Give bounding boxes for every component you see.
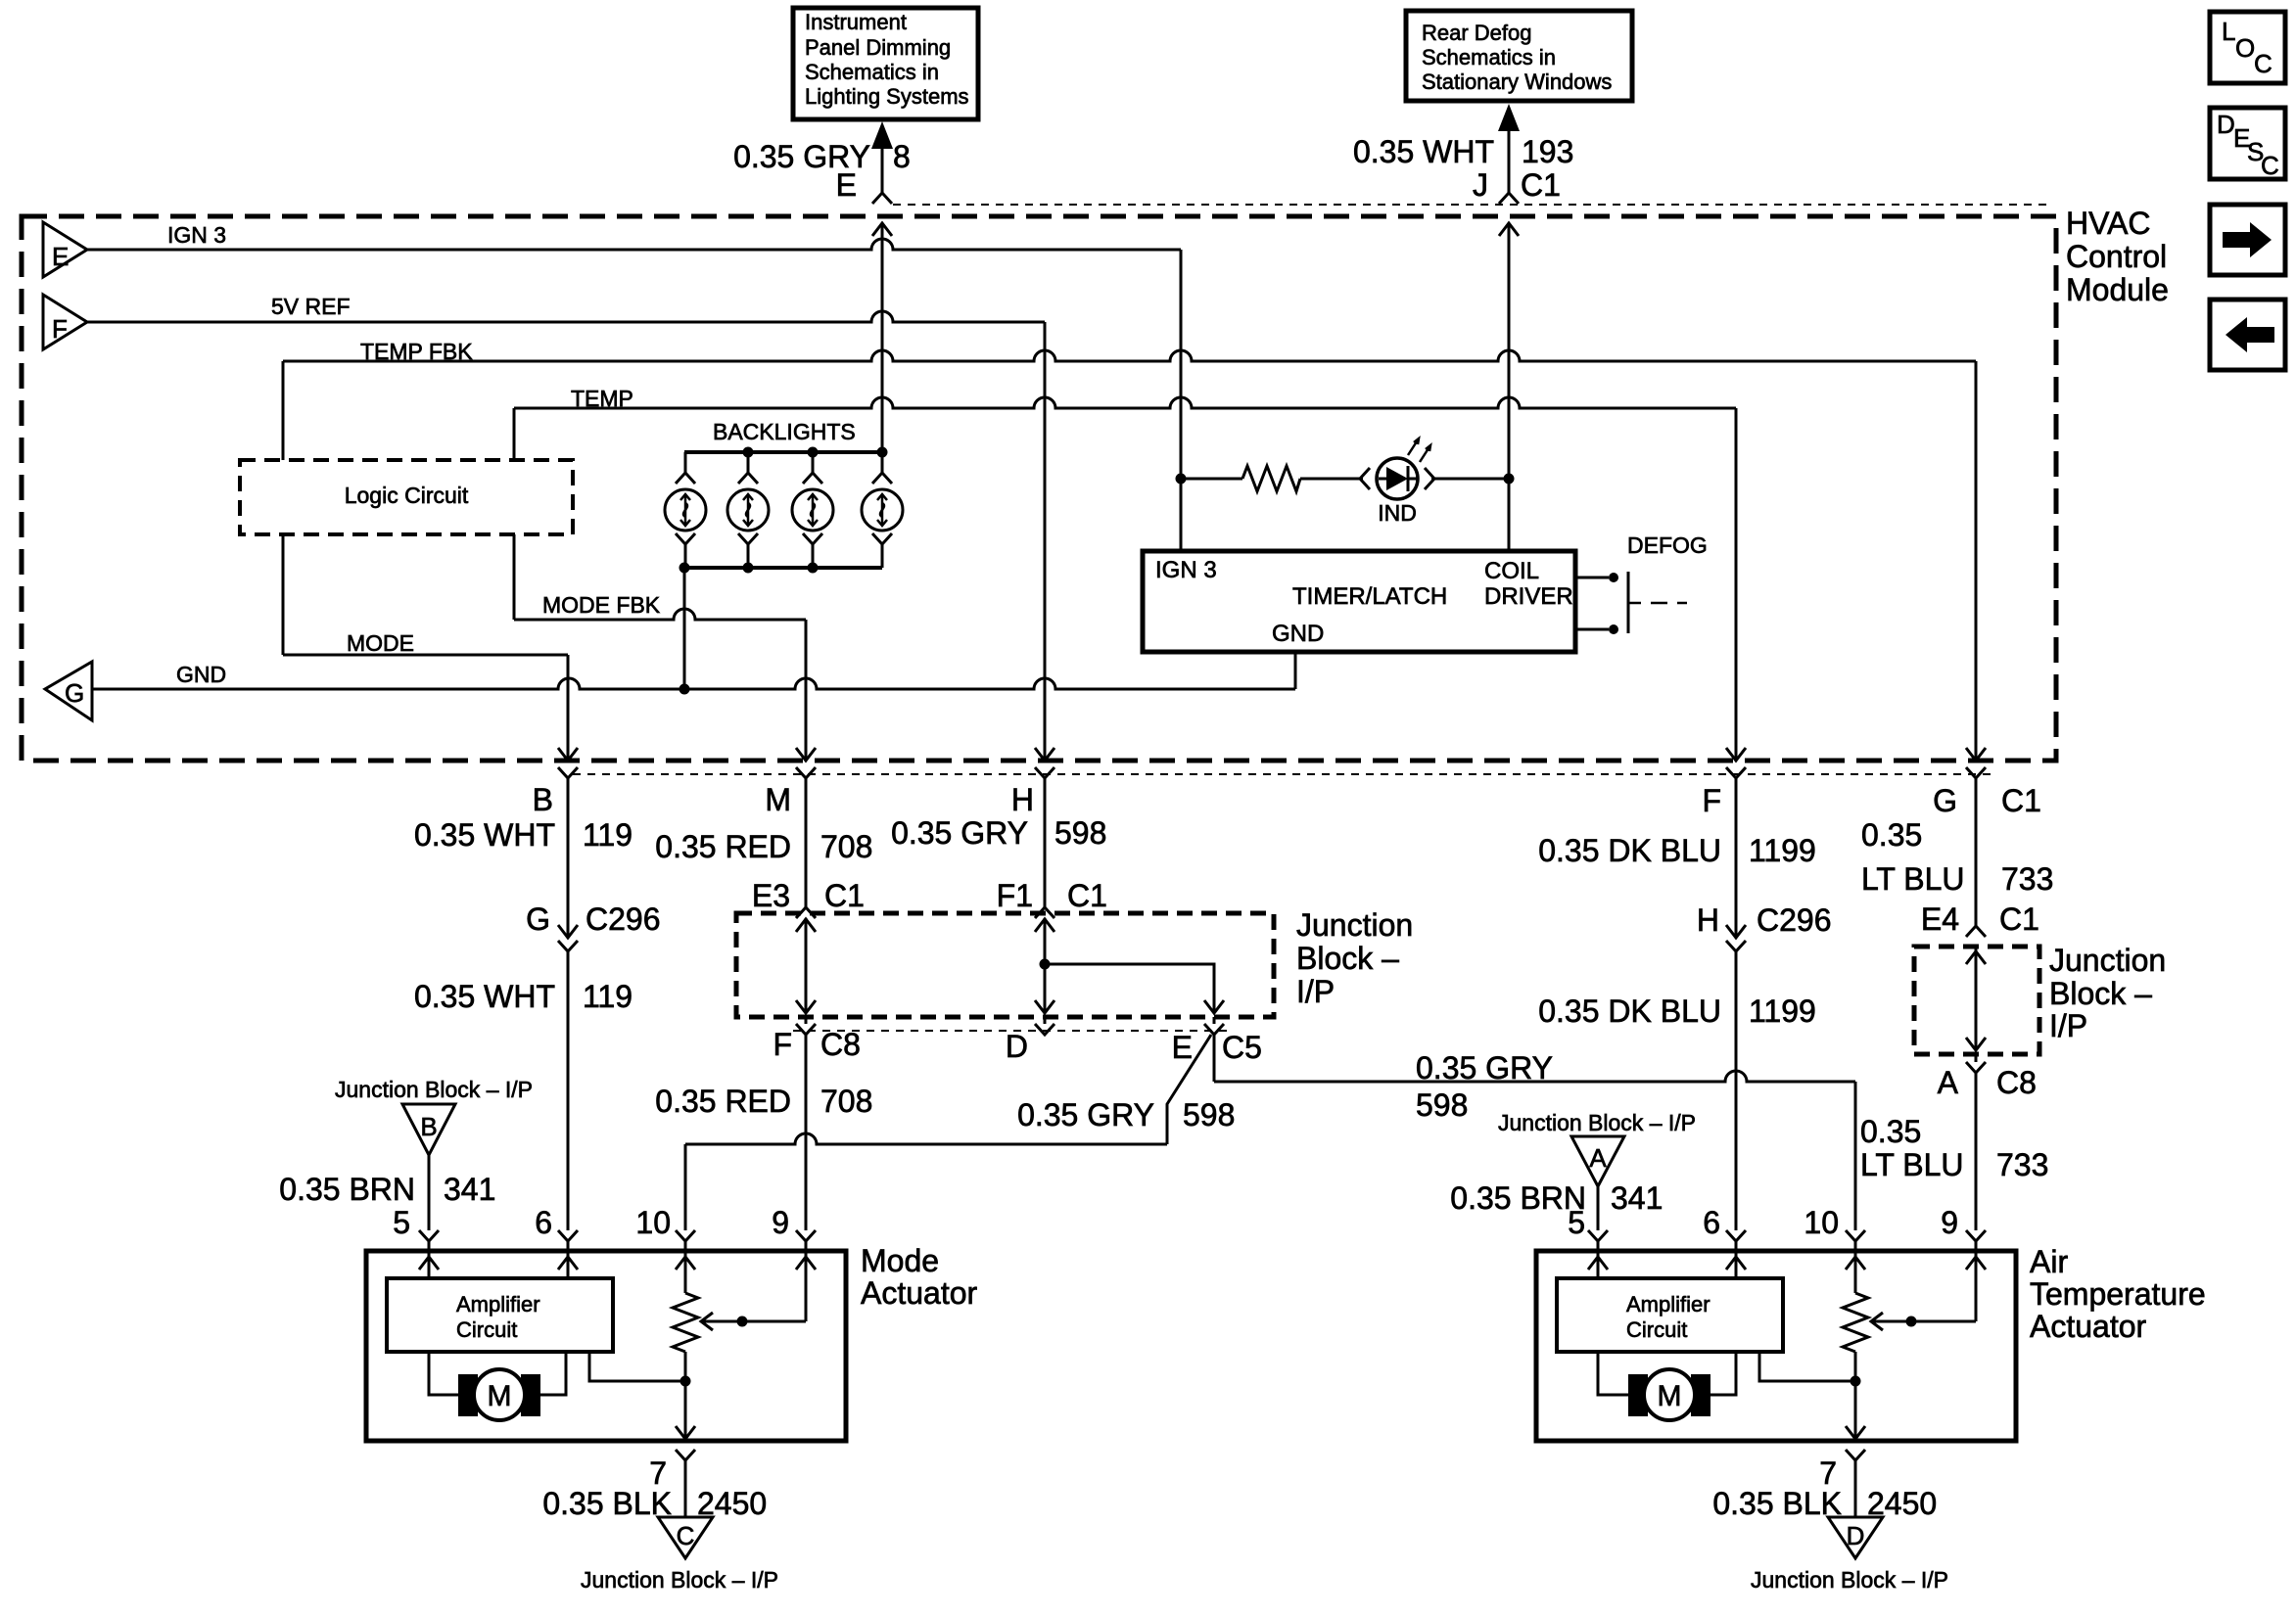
lamp backlight 2 (727, 452, 769, 568)
svg-text:C: C (677, 1521, 695, 1550)
svg-text:5V REF: 5V REF (271, 294, 351, 319)
wire triangle A to pin 5 (1588, 1186, 1608, 1251)
wiper arrow (mode) (701, 1313, 806, 1330)
label A C8 (1938, 1065, 2037, 1100)
wire IGN 3 (87, 239, 1181, 551)
label F1 C1 (997, 878, 1107, 913)
connector triangle C (junction block) (658, 1517, 713, 1558)
wire TEMP FBK (283, 350, 1976, 761)
svg-text:Schematics in: Schematics in (805, 60, 939, 84)
svg-text:D: D (1847, 1521, 1865, 1550)
box: Instrument Panel Dimming reference (793, 8, 978, 119)
svg-text:G: G (1933, 783, 1957, 818)
junction pot/amp (mode) (680, 1376, 691, 1387)
svg-text:0.35 BRN: 0.35 BRN (1450, 1180, 1586, 1216)
label 0.35 WHT 119 (upper) (414, 817, 633, 853)
connector C5 pin D below junction block (1035, 1017, 1054, 1035)
svg-text:598: 598 (1416, 1087, 1468, 1123)
label H (1011, 782, 1034, 817)
svg-text:A: A (1938, 1065, 1959, 1100)
svg-text:Actuator: Actuator (861, 1275, 978, 1311)
svg-text:F1: F1 (997, 878, 1033, 913)
wire amplifier to motor right (mode) (540, 1352, 566, 1395)
svg-text:Logic Circuit: Logic Circuit (345, 483, 469, 508)
label 0.35 BLK 2450 (left) (542, 1486, 767, 1521)
label pin 9 (air temp) (1941, 1205, 1958, 1240)
label 0.35 BLK 2450 (right) (1712, 1486, 1937, 1521)
wire resistor to IND (1300, 478, 1363, 481)
wire J exit to Rear Defog box with arrow (1498, 104, 1520, 204)
label G C1 (1933, 783, 2041, 818)
thin dashed connector line C1 top (893, 204, 2046, 206)
wire M exit arrow at module border (796, 748, 816, 778)
wire GRY 598 to air temp actuator (1214, 1035, 1865, 1251)
label F C8 (773, 1027, 860, 1062)
svg-text:Mode: Mode (861, 1243, 939, 1278)
wiper arrow (air temp) (1871, 1313, 1976, 1330)
svg-text:6: 6 (1703, 1205, 1720, 1240)
icon DESC box (2210, 108, 2285, 180)
junction inside junction block (1040, 959, 1051, 970)
svg-text:0.35 RED: 0.35 RED (655, 1084, 791, 1119)
svg-text:C296: C296 (1757, 902, 1832, 938)
svg-text:LT BLU: LT BLU (1861, 861, 1965, 897)
wire E exit to Instrument Panel box with arrow (871, 121, 893, 204)
motor M (air temp) (1628, 1369, 1710, 1420)
thin dashed connector line bottom (573, 773, 1997, 775)
label E4 C1 (1921, 901, 2039, 937)
svg-text:Panel Dimming: Panel Dimming (805, 35, 951, 60)
svg-text:0.35 GRY: 0.35 GRY (1416, 1050, 1553, 1086)
label IND (1378, 500, 1417, 526)
svg-text:DEFOG: DEFOG (1627, 532, 1708, 558)
resistor R (IND series) (1242, 466, 1300, 491)
box: Rear Defog reference (1406, 11, 1632, 101)
connector pin 7 below air temp actuator (1846, 1450, 1865, 1517)
connector arrow F (5V REF input) (43, 295, 87, 349)
wire IND to coil driver (1431, 478, 1509, 481)
LED IND indicator (1360, 439, 1434, 499)
svg-text:J: J (1473, 167, 1488, 203)
icon LOC box (2210, 12, 2285, 83)
label pin 6 (mode) (535, 1205, 552, 1240)
junction IND / J wire (1504, 474, 1515, 485)
svg-text:0.35 GRY: 0.35 GRY (891, 815, 1028, 851)
svg-text:Circuit: Circuit (1626, 1317, 1687, 1342)
label 0.35 GRY 598 (891, 815, 1106, 851)
label HVAC Control Module (2066, 206, 2169, 307)
label Junction Block - I/P (above triangle A) (1498, 1110, 1696, 1135)
junction return bus dots (679, 563, 819, 574)
label 0.35 WHT 119 (lower) (414, 979, 633, 1014)
svg-text:0.35 WHT: 0.35 WHT (414, 817, 555, 853)
wire pin6 to amplifier (air) (1735, 1251, 1738, 1278)
svg-text:0.35 GRY: 0.35 GRY (1017, 1097, 1154, 1132)
wire backlight return bus (684, 566, 882, 570)
svg-text:IND: IND (1378, 500, 1417, 526)
label Junction Block - I/P (bottom right) (1751, 1567, 1948, 1593)
lamp backlight 3 (792, 452, 833, 568)
svg-text:9: 9 (772, 1205, 789, 1240)
label Junction Block - I/P (center) (1296, 907, 1413, 1009)
svg-text:193: 193 (1522, 134, 1573, 169)
svg-text:708: 708 (820, 1084, 872, 1119)
connector C1 pin E3 (junction block top) (796, 907, 816, 918)
wire M through junction block (796, 918, 816, 1013)
label BACKLIGHTS (713, 419, 856, 444)
potentiometer (mode) (673, 1293, 698, 1352)
svg-text:0.35 DK BLU: 0.35 DK BLU (1538, 993, 1721, 1029)
svg-text:C8: C8 (1996, 1065, 2037, 1100)
junction backlight bus dots (743, 447, 888, 458)
label TIMER/LATCH (1292, 583, 1447, 610)
svg-text:C296: C296 (586, 901, 661, 937)
svg-text:D: D (2217, 110, 2235, 139)
wire pin10 to potentiometer (air) (1854, 1251, 1857, 1293)
svg-text:Control: Control (2066, 239, 2167, 274)
svg-text:COIL: COIL (1484, 558, 1539, 584)
svg-text:Amplifier: Amplifier (456, 1292, 540, 1317)
connector pin 7 below mode actuator (676, 1450, 695, 1517)
svg-text:9: 9 (1941, 1205, 1958, 1240)
svg-text:H: H (1011, 782, 1034, 817)
pin arrows mode actuator (419, 1257, 816, 1270)
connector C296 pin G inline (558, 925, 578, 951)
wire triangle B to pin 5 (419, 1155, 439, 1251)
connector arrow E (IGN 3 input) (43, 222, 87, 277)
svg-text:E: E (1172, 1030, 1193, 1065)
wire G upper segment (1975, 778, 1978, 926)
svg-text:E4: E4 (1921, 901, 1959, 937)
box: Junction Block - I/P (center, dashed) (736, 913, 1274, 1017)
svg-text:5: 5 (393, 1205, 410, 1240)
box: Air Temperature Actuator (1536, 1251, 2016, 1441)
svg-text:HVAC: HVAC (2066, 206, 2151, 241)
label Junction Block - I/P (above triangle B) (335, 1077, 533, 1102)
svg-text:Air: Air (2030, 1244, 2068, 1279)
wire TEMP (514, 397, 1736, 761)
label 0.35 BRN 341 (left) (279, 1172, 495, 1207)
wire F upper segment (1735, 778, 1738, 938)
label 0.35 WHT 193 / J C1 (1353, 134, 1573, 203)
wire amplifier to motor left (air temp) (1598, 1352, 1628, 1395)
label G C296 (526, 901, 660, 937)
label 0.35 GRY 8 / E (733, 139, 911, 203)
wire MODE (283, 534, 568, 761)
svg-text:F: F (773, 1027, 792, 1062)
label MODE FBK (542, 592, 661, 618)
svg-text:Schematics in: Schematics in (1422, 45, 1556, 69)
label 0.35 DK BLU 1199 (lower) (1538, 993, 1816, 1029)
label 0.35 LT BLU 733 (lower) (1860, 1114, 2048, 1182)
svg-text:Block –: Block – (2049, 976, 2152, 1011)
svg-text:5: 5 (1568, 1205, 1585, 1240)
wire G lower segment (1966, 1073, 1986, 1251)
svg-text:0.35 WHT: 0.35 WHT (414, 979, 555, 1014)
svg-text:E: E (836, 167, 857, 203)
label pin 6 (air temp) (1703, 1205, 1720, 1240)
junction GND / backlight return (679, 684, 690, 695)
svg-text:B: B (420, 1112, 437, 1141)
junction pot/amp (air temp) (1851, 1376, 1861, 1387)
svg-text:MODE: MODE (347, 630, 414, 656)
svg-text:341: 341 (1611, 1180, 1663, 1216)
wire H through junction block (1035, 918, 1054, 1013)
label pin 5 (air temp) (1568, 1205, 1585, 1240)
svg-text:C1: C1 (1521, 167, 1561, 203)
svg-text:0.35 BLK: 0.35 BLK (542, 1486, 672, 1521)
lamp backlight 1 (665, 452, 706, 568)
svg-text:Junction: Junction (1296, 907, 1413, 943)
svg-text:M: M (765, 782, 791, 817)
label 0.35 GRY 598 (left) (1017, 1097, 1235, 1132)
svg-text:MODE FBK: MODE FBK (542, 592, 661, 618)
svg-text:708: 708 (820, 829, 872, 864)
svg-text:Circuit: Circuit (456, 1317, 517, 1342)
svg-text:BACKLIGHTS: BACKLIGHTS (713, 419, 856, 444)
svg-text:Module: Module (2066, 272, 2169, 307)
label D (1006, 1029, 1028, 1064)
svg-text:Temperature: Temperature (2030, 1276, 2206, 1312)
wire pin5 to amplifier (mode) (428, 1251, 431, 1278)
icon right arrow box (2210, 205, 2285, 275)
label TEMP FBK (360, 339, 473, 364)
svg-text:A: A (1589, 1143, 1607, 1173)
label E3 C1 (752, 878, 865, 913)
svg-text:341: 341 (444, 1172, 495, 1207)
svg-text:L: L (2222, 17, 2235, 46)
connector C5 pin E below junction block (1204, 1017, 1224, 1035)
label COIL DRIVER (1484, 558, 1573, 610)
svg-text:C1: C1 (1067, 878, 1107, 913)
svg-text:0.35 WHT: 0.35 WHT (1353, 134, 1494, 169)
potentiometer (air temp) (1843, 1293, 1868, 1352)
svg-text:119: 119 (583, 817, 633, 853)
label 0.35 DK BLU 1199 (upper) (1538, 833, 1816, 868)
svg-text:0.35 BRN: 0.35 BRN (279, 1172, 415, 1207)
connector C296 pin H inline (1726, 925, 1746, 951)
wire F lower segment (1726, 951, 1746, 1251)
box: TIMER/LATCH (1143, 551, 1575, 652)
label 598 (right) (1416, 1087, 1468, 1123)
wire M upper segment (805, 778, 808, 907)
label 7 (mode) (649, 1455, 667, 1491)
svg-text:IGN 3: IGN 3 (1155, 557, 1217, 583)
wire GRY 598 diagonal to mode actuator (676, 1035, 1211, 1251)
box: Logic Circuit (dashed) (240, 460, 573, 534)
svg-text:D: D (1006, 1029, 1028, 1064)
box: Junction Block - I/P (right, dashed) (1914, 947, 2039, 1054)
svg-text:E3: E3 (752, 878, 790, 913)
connector triangle A (junction block) (1571, 1136, 1624, 1186)
label 0.35 LT BLU 733 (upper) (1861, 817, 2053, 897)
svg-text:F: F (1702, 783, 1721, 818)
svg-text:GND: GND (1272, 621, 1324, 647)
svg-text:Actuator: Actuator (2030, 1309, 2147, 1344)
svg-text:B: B (533, 782, 553, 817)
wire E inside module up-arrow (872, 223, 892, 452)
label 0.35 RED 708 (upper) (655, 829, 872, 864)
wire pin5 to amplifier (air) (1597, 1251, 1600, 1278)
svg-text:G: G (65, 678, 84, 708)
label Mode Actuator (861, 1243, 978, 1311)
svg-text:IGN 3: IGN 3 (167, 222, 226, 248)
svg-text:Stationary Windows: Stationary Windows (1422, 69, 1612, 94)
box: Amplifier Circuit (air temp) (1557, 1278, 1783, 1352)
label 5V REF (271, 294, 351, 319)
switch DEFOG (1575, 572, 1687, 634)
svg-text:10: 10 (1804, 1205, 1839, 1240)
svg-text:598: 598 (1054, 815, 1106, 851)
svg-text:H: H (1697, 902, 1719, 938)
wire potentiometer bottom (mode) (676, 1352, 695, 1441)
pin arrows air temp actuator (1588, 1257, 1986, 1270)
motor M (mode) (458, 1369, 540, 1420)
wire G through right junction block (1966, 947, 1986, 1050)
wire backlight supply bus (684, 450, 882, 454)
wire MODE FBK (514, 534, 806, 761)
wire H exit arrow at module border (1035, 748, 1054, 778)
thin dashed connector line below junction block (793, 1030, 1229, 1032)
svg-text:1199: 1199 (1749, 993, 1816, 1029)
label pin 10 (mode) (635, 1205, 671, 1240)
svg-text:1199: 1199 (1749, 833, 1816, 868)
label pin 5 (mode) (393, 1205, 410, 1240)
svg-text:598: 598 (1183, 1097, 1235, 1132)
svg-text:733: 733 (2001, 861, 2053, 897)
svg-text:6: 6 (535, 1205, 552, 1240)
svg-text:0.35: 0.35 (1861, 817, 1922, 853)
svg-text:I/P: I/P (2049, 1008, 2087, 1043)
svg-text:C1: C1 (1999, 901, 2039, 937)
svg-text:Junction: Junction (2049, 943, 2166, 978)
label E C5 (1172, 1030, 1262, 1065)
wire amplifier to motor right (air temp) (1710, 1352, 1736, 1395)
svg-text:0.35 RED: 0.35 RED (655, 829, 791, 864)
svg-text:0.35: 0.35 (1860, 1114, 1921, 1149)
connector C1 pin F1 (junction block top) (1035, 907, 1054, 918)
label GND (timer pin) (1272, 621, 1324, 647)
svg-text:Amplifier: Amplifier (1626, 1292, 1710, 1317)
wire F exit arrow at module border (1726, 748, 1746, 778)
label Junction Block - I/P (right) (2049, 943, 2166, 1043)
svg-text:M: M (1658, 1380, 1682, 1412)
wire G exit arrow at module border (1966, 748, 1986, 778)
wire J inside module (coil driver output) (1499, 223, 1519, 551)
label Air Temperature Actuator (2030, 1244, 2206, 1344)
label pin 10 (air temp) (1804, 1205, 1839, 1240)
svg-text:Junction Block – I/P: Junction Block – I/P (1751, 1567, 1948, 1593)
connector C1 pin E4 (junction block right) (1966, 926, 1986, 937)
wire M lower segment (796, 1035, 816, 1251)
connector arrow G (GND output) (45, 662, 92, 720)
wire 5V REF to H wire (87, 311, 1045, 761)
wire amplifier to pot junction (air temp) (1759, 1352, 1855, 1381)
wire IGN3 to resistor (1181, 478, 1242, 481)
connector triangle D (junction block) (1828, 1517, 1883, 1558)
wire B upper segment (567, 778, 570, 938)
svg-text:TIMER/LATCH: TIMER/LATCH (1292, 583, 1447, 610)
svg-text:Rear Defog: Rear Defog (1422, 21, 1532, 45)
wire amplifier to motor left (mode) (429, 1352, 458, 1395)
svg-text:I/P: I/P (1296, 974, 1335, 1009)
junction IGN3 / resistor (1176, 474, 1187, 485)
label IGN 3 (timer pin) (1155, 557, 1217, 583)
svg-text:DRIVER: DRIVER (1484, 583, 1573, 610)
svg-text:G: G (526, 901, 550, 937)
wire pin10 to potentiometer (mode) (684, 1251, 687, 1293)
box: Mode Actuator (366, 1251, 846, 1441)
label TEMP (571, 386, 633, 411)
label pin 9 (mode) (772, 1205, 789, 1240)
svg-text:Block –: Block – (1296, 941, 1399, 976)
svg-text:M: M (488, 1380, 512, 1412)
wire potentiometer bottom (air temp) (1846, 1352, 1865, 1441)
svg-text:Junction Block – I/P: Junction Block – I/P (1498, 1110, 1696, 1135)
wire backlight return to GND (683, 568, 686, 689)
connector triangle B (junction block) (402, 1104, 455, 1155)
svg-text:C1: C1 (824, 878, 865, 913)
svg-text:Instrument: Instrument (805, 10, 907, 34)
HVAC Control Module dashed border (22, 216, 2056, 761)
label Junction Block - I/P (bottom left) (581, 1567, 778, 1593)
wire pin6 to amplifier (mode) (567, 1251, 570, 1278)
svg-text:10: 10 (635, 1205, 671, 1240)
wire junction block jumper to E (1045, 964, 1224, 1013)
label H C296 (1697, 902, 1832, 938)
svg-text:C: C (2261, 151, 2279, 180)
wire amplifier to pot junction (mode) (589, 1352, 685, 1381)
label IGN 3 (167, 222, 226, 248)
label 0.35 RED 708 (lower) (655, 1084, 872, 1119)
label 7 (air temp) (1819, 1455, 1837, 1491)
label 0.35 GRY (right) (1416, 1050, 1553, 1086)
svg-text:C8: C8 (820, 1027, 861, 1062)
lamp backlight 4 (862, 452, 903, 568)
wire B lower segment (558, 951, 578, 1251)
svg-text:E: E (52, 242, 69, 271)
label F (1702, 783, 1721, 818)
box: Amplifier Circuit (mode) (387, 1278, 613, 1352)
wire GND (92, 652, 1295, 689)
label MODE (347, 630, 414, 656)
svg-text:F: F (52, 314, 68, 344)
wire H upper segment (1044, 778, 1047, 907)
svg-text:C: C (2254, 49, 2273, 78)
label B (533, 782, 553, 817)
svg-text:LT BLU: LT BLU (1860, 1147, 1964, 1182)
svg-text:C5: C5 (1222, 1030, 1262, 1065)
svg-text:C1: C1 (2001, 783, 2041, 818)
svg-text:0.35 BLK: 0.35 BLK (1712, 1486, 1842, 1521)
svg-text:Junction Block – I/P: Junction Block – I/P (335, 1077, 533, 1102)
svg-text:733: 733 (1996, 1147, 2048, 1182)
wire pin9 to wiper (air) (1975, 1251, 1978, 1321)
svg-text:O: O (2235, 33, 2255, 63)
label M (765, 782, 791, 817)
label GND (176, 662, 226, 687)
svg-text:Junction Block – I/P: Junction Block – I/P (581, 1567, 778, 1593)
wire pin9 to wiper (mode) (805, 1251, 808, 1321)
svg-text:Lighting Systems: Lighting Systems (805, 84, 969, 109)
connector C8 pin A below right junction block (1966, 1054, 1986, 1073)
svg-text:0.35 DK BLU: 0.35 DK BLU (1538, 833, 1721, 868)
svg-text:8: 8 (893, 139, 911, 174)
label 0.35 BRN 341 (right) (1450, 1180, 1663, 1216)
connector C8 pin F below junction block (796, 1017, 816, 1035)
svg-text:GND: GND (176, 662, 226, 687)
icon left arrow box (2210, 300, 2285, 370)
